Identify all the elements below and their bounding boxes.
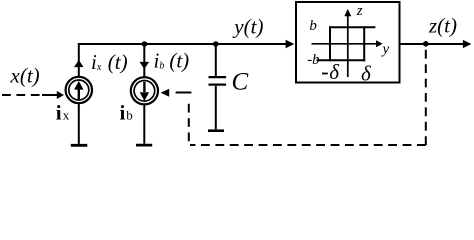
- capacitor C: [215, 44, 217, 76]
- svg-text:z: z: [356, 3, 363, 19]
- svg-text:-b: -b: [307, 52, 320, 68]
- svg-text:y(t): y(t): [232, 15, 263, 39]
- arrow current direction ix(t): [74, 60, 84, 67]
- z axis: [347, 16, 349, 77]
- label -delta: [322, 73, 328, 75]
- wire dashed feedback left vertical: [188, 100, 190, 142]
- svg-text:i: i: [56, 100, 62, 124]
- wire dashed feedback into Ib: [176, 92, 192, 94]
- svg-text:δ: δ: [361, 61, 372, 85]
- svg-text:z(t): z(t): [428, 14, 457, 38]
- block nonlinearity: [296, 2, 400, 83]
- ground capacitor: [208, 129, 224, 132]
- svg-text:C: C: [232, 69, 249, 96]
- svg-text:δ: δ: [329, 60, 340, 84]
- svg-text:b: b: [126, 108, 133, 123]
- junction dot ib: [142, 41, 148, 47]
- wire top bus with corner: [79, 44, 286, 77]
- wire + ground Ix: [78, 104, 80, 144]
- svg-text:i: i: [120, 100, 126, 124]
- hysteresis relay characteristic: [329, 26, 375, 28]
- svg-text:b: b: [309, 18, 317, 34]
- output wire z(t): [400, 43, 464, 45]
- wire dashed input x(t): [2, 94, 42, 96]
- junction dot output: [423, 41, 429, 47]
- current source Ix: [66, 77, 92, 103]
- wire dashed feedback bottom horizontal: [190, 144, 426, 146]
- wire ib from bus to source: [143, 44, 145, 77]
- arrowhead y(t) into block: [286, 40, 295, 49]
- svg-text:x: x: [63, 108, 70, 123]
- svg-text:ix(t): ix(t): [91, 50, 128, 74]
- svg-text:y: y: [381, 41, 390, 57]
- svg-text:x(t): x(t): [10, 64, 40, 88]
- arrow current direction ib(t): [140, 62, 150, 69]
- wire + ground Ib: [143, 105, 145, 143]
- junction dot capacitor: [213, 41, 219, 47]
- wire dashed feedback right vertical: [425, 44, 427, 145]
- svg-text:ib(t): ib(t): [154, 49, 190, 73]
- arrowhead feedback into Ib: [161, 89, 170, 97]
- y axis: [312, 43, 377, 45]
- current source Ib: [131, 77, 158, 104]
